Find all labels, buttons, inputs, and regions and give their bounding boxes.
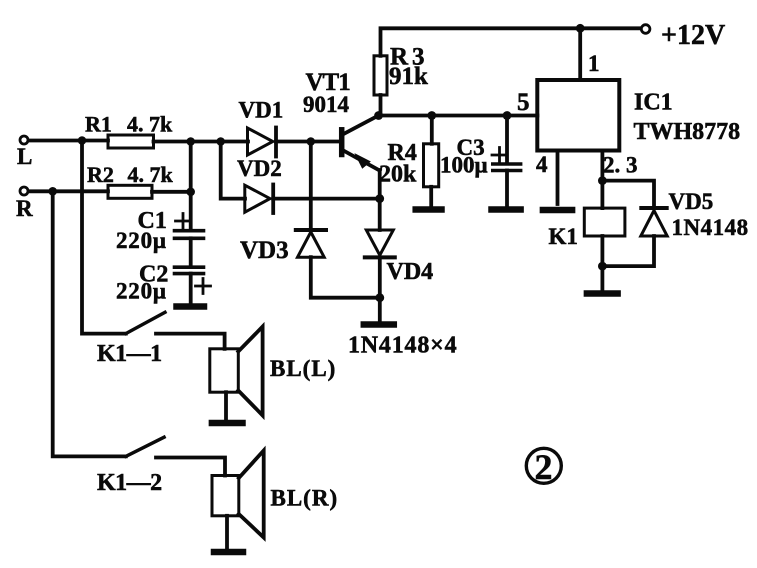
svg-text:K1: K1 <box>549 224 578 249</box>
ground (C3) <box>492 206 521 213</box>
junction pin2.3/VD5 <box>598 176 607 185</box>
wire R3 top to +12V rail <box>381 28 642 56</box>
switch K1-1 <box>126 312 165 333</box>
speaker BL(L) <box>210 327 263 416</box>
junction base/VD3 <box>307 137 316 146</box>
terminal L <box>20 136 28 144</box>
wire BL(R) to ground <box>225 516 229 549</box>
svg-text:5: 5 <box>517 89 530 116</box>
wire switch K1-2 to BL(R) <box>156 458 225 476</box>
junction VD3/VD4 ground <box>375 293 384 302</box>
svg-text:L: L <box>17 144 32 169</box>
wire VD3 anode to VD4 node <box>311 257 380 298</box>
terminal +12V <box>641 25 650 34</box>
svg-text:220μ: 220μ <box>116 228 167 253</box>
junction L/K1-1 <box>78 136 87 145</box>
diode VD2 <box>245 185 273 214</box>
wire switch K1-1 to BL(L) <box>156 334 225 349</box>
diode VD4 <box>365 230 395 257</box>
svg-text:VD5: VD5 <box>669 189 714 214</box>
ground (VD3 VD4) <box>364 321 394 328</box>
wire emitter down <box>378 170 382 230</box>
wire K1 bottom <box>601 236 605 291</box>
switch K1-2 <box>126 437 164 456</box>
svg-text:R2: R2 <box>87 162 114 187</box>
wire R down to switch K1-2 <box>53 191 126 456</box>
junction C3 branch <box>503 111 512 120</box>
svg-text:BL(R): BL(R) <box>271 486 339 511</box>
resistor R3 <box>374 56 387 95</box>
wire VD1 cathode to base node <box>276 140 342 144</box>
svg-text:1N4148: 1N4148 <box>672 215 749 240</box>
ground (K1) <box>587 290 618 297</box>
svg-text:2: 2 <box>535 447 553 487</box>
polarity + of C1 <box>176 214 191 229</box>
svg-text:VD4: VD4 <box>387 259 434 285</box>
pin 1 wire <box>578 28 582 80</box>
terminal R <box>20 187 28 195</box>
svg-text:1: 1 <box>588 51 600 76</box>
resistor R2 <box>108 185 152 198</box>
junction K1/VD5 bottom <box>598 262 607 271</box>
svg-text:91k: 91k <box>389 63 428 90</box>
junction rail/pin1 <box>576 24 585 33</box>
svg-text:4. 7k: 4. 7k <box>128 162 174 187</box>
wire merge vertical to C1 <box>189 142 193 229</box>
pin 2.3 wire <box>601 151 605 209</box>
wire L input to R1 <box>29 139 109 143</box>
junction VD2 branch <box>216 137 225 146</box>
junction R2 output <box>186 188 195 197</box>
wire VD2 branch <box>221 142 245 199</box>
capacitor C1 <box>175 231 204 239</box>
pin 4 wire <box>556 151 560 205</box>
junction R/K1-2 <box>48 187 57 196</box>
relay K1 <box>584 208 625 236</box>
wire VD3 branch vertical <box>309 142 313 230</box>
transistor VT1 <box>342 116 380 171</box>
ground (BL L) <box>212 420 243 427</box>
svg-text:VD2: VD2 <box>237 156 282 181</box>
capacitor C3 <box>493 116 521 207</box>
wire R1 to VD1 <box>154 140 249 144</box>
ground (R4) <box>416 206 442 213</box>
wire C2 to ground <box>189 274 193 303</box>
svg-text:4: 4 <box>536 152 548 177</box>
wire VD4 cathode down <box>378 257 382 321</box>
figure number 2 <box>526 447 561 487</box>
svg-text:VD3: VD3 <box>240 237 289 264</box>
wire collector node to IC pin5 <box>379 114 538 118</box>
resistor R4 <box>424 116 439 207</box>
svg-text:220μ: 220μ <box>116 279 167 304</box>
ground (pin4) <box>543 207 572 214</box>
diode VD5 <box>641 208 667 236</box>
polarity + of C3 <box>492 148 507 163</box>
wire R3 bottom to collector node <box>379 95 383 116</box>
svg-text:IC1: IC1 <box>634 90 673 116</box>
svg-text:20k: 20k <box>379 162 417 188</box>
junction emitter/VD2/VD4 <box>375 194 384 203</box>
diode VD1 <box>248 128 277 157</box>
wire C1 to C2 <box>189 238 193 267</box>
svg-text:TWH8778: TWH8778 <box>634 119 741 145</box>
op-amp U1 IC1 box <box>537 80 619 151</box>
wire to VD5 top <box>602 181 654 208</box>
diode VD3 <box>296 230 326 257</box>
junction R4 branch <box>427 111 436 120</box>
svg-text:1N4148×4: 1N4148×4 <box>348 333 457 359</box>
svg-text:9014: 9014 <box>303 92 350 117</box>
junction collector <box>374 111 383 120</box>
ground (BL R) <box>214 549 243 556</box>
svg-text:K1—1: K1—1 <box>97 341 162 367</box>
wire VD2 cathode to emitter node <box>273 197 380 201</box>
capacitor C2 <box>175 267 204 273</box>
speaker BL(R) <box>212 451 264 538</box>
polarity + of C2 <box>196 279 211 294</box>
svg-text:BL(L): BL(L) <box>270 356 336 381</box>
svg-text:+12V: +12V <box>661 20 725 51</box>
svg-text:2. 3: 2. 3 <box>603 153 638 178</box>
wire L down to switch K1-1 <box>82 141 126 334</box>
resistor R1 <box>108 135 154 148</box>
wire BL(L) to ground <box>224 392 228 420</box>
ground (C2) <box>177 303 205 310</box>
wire R input to R2 <box>29 189 109 193</box>
junction R1/R2 merge <box>186 137 195 146</box>
svg-text:100μ: 100μ <box>440 153 488 178</box>
svg-text:4. 7k: 4. 7k <box>127 112 173 137</box>
svg-text:R1: R1 <box>85 112 112 137</box>
svg-text:R: R <box>16 196 33 221</box>
svg-text:K1—2: K1—2 <box>97 470 162 496</box>
wire VD5 bottom to junction <box>602 236 654 266</box>
wire R2 to merge node <box>152 190 191 194</box>
svg-text:VD1: VD1 <box>239 98 284 123</box>
